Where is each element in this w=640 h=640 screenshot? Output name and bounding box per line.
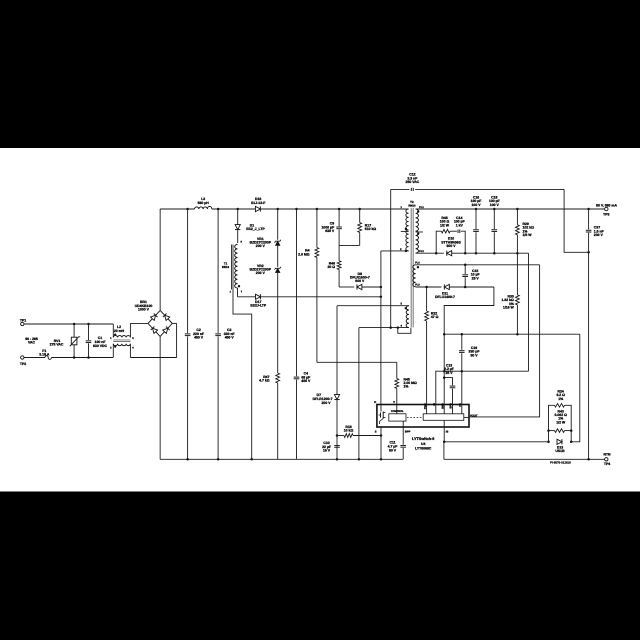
diode D17 bbox=[256, 294, 261, 299]
svg-text:V: V bbox=[393, 401, 395, 404]
svg-text:200 V: 200 V bbox=[256, 244, 266, 248]
svg-text:20 Ω: 20 Ω bbox=[327, 265, 335, 269]
svg-text:TP4: TP4 bbox=[604, 462, 610, 466]
IC internal control box bbox=[389, 414, 406, 421]
C12 right leg to output bbox=[564, 189, 589, 252]
IC internal dashed link bbox=[407, 416, 423, 418]
svg-text:100 V: 100 V bbox=[490, 203, 500, 207]
varistor RV1 bbox=[73, 324, 75, 337]
svg-text:80 V, 580 mA: 80 V, 580 mA bbox=[596, 203, 617, 207]
capacitor C12 wire left bbox=[391, 188, 410, 190]
svg-text:1%: 1% bbox=[558, 397, 563, 401]
IC control to BPP stub bbox=[402, 421, 404, 427]
svg-text:16 V: 16 V bbox=[323, 449, 331, 453]
diode D17 wire bbox=[238, 296, 256, 298]
wire FB pin bbox=[461, 371, 463, 404]
IC block to IS stub bbox=[443, 420, 445, 427]
svg-text:1/8 W: 1/8 W bbox=[523, 233, 533, 237]
wire L2 pin4 to bridge right bbox=[130, 357, 176, 359]
svg-text:510 kΩ: 510 kΩ bbox=[365, 227, 377, 231]
T2 core ground jog bbox=[398, 328, 411, 334]
svg-text:S: S bbox=[375, 431, 377, 434]
T2 primary upper winding bbox=[406, 209, 409, 251]
svg-text:CONTROL: CONTROL bbox=[391, 410, 404, 413]
diode D7 bbox=[336, 306, 338, 395]
svg-text:20 mH: 20 mH bbox=[114, 329, 125, 333]
svg-text:US1B: US1B bbox=[555, 449, 565, 453]
wire bridge plus to top rail bbox=[159, 209, 161, 310]
svg-text:450 V: 450 V bbox=[194, 336, 204, 340]
svg-text:10 kΩ: 10 kΩ bbox=[344, 429, 354, 433]
diode D8 bbox=[357, 284, 362, 289]
svg-text:275 VAC: 275 VAC bbox=[50, 343, 64, 347]
snubber R48 C14 bbox=[436, 231, 441, 253]
T2 secondary FL4-FL3 winding bbox=[413, 265, 416, 287]
svg-text:EE13: EE13 bbox=[222, 265, 229, 269]
wire FL4 to VOUT bbox=[469, 265, 540, 417]
bridge diode bottom-right bbox=[163, 328, 168, 333]
wire FL4 out bbox=[416, 264, 540, 266]
svg-text:25 V: 25 V bbox=[445, 371, 453, 375]
T2 primary upper tap bbox=[401, 230, 409, 232]
svg-text:1/2 W: 1/2 W bbox=[556, 420, 566, 424]
choke L2 bottom winding bbox=[113, 344, 130, 346]
inductor T1 winding bbox=[235, 245, 238, 289]
top rail primary bbox=[160, 208, 194, 210]
wire FL3 to D11 bbox=[416, 286, 442, 288]
wire TP1 to L2 bbox=[24, 323, 113, 325]
diode D8 wire bbox=[339, 286, 354, 288]
svg-text:S1J-13-F: S1J-13-F bbox=[251, 201, 265, 205]
wire R4 to R45 bbox=[317, 361, 397, 363]
T2 secondary FL1-FL2 winding bbox=[416, 209, 419, 253]
zener VR2 bbox=[276, 268, 280, 272]
T2 secondary tap bbox=[416, 231, 423, 233]
bridge diode top-right bbox=[165, 315, 170, 320]
svg-text:250 VAC: 250 VAC bbox=[406, 180, 420, 184]
svg-text:FL1: FL1 bbox=[419, 206, 424, 209]
svg-text:RM10: RM10 bbox=[408, 204, 416, 207]
T2 primary lower winding bbox=[406, 306, 409, 328]
svg-text:2.0 MΩ: 2.0 MΩ bbox=[298, 252, 310, 256]
svg-text:VAC: VAC bbox=[28, 341, 36, 345]
svg-text:100 V: 100 V bbox=[472, 203, 482, 207]
diode D11 bbox=[444, 284, 449, 289]
T2 pin5 wire bbox=[337, 305, 409, 307]
svg-text:DFLU1400-7: DFLU1400-7 bbox=[435, 295, 455, 299]
resistor R43 bbox=[547, 429, 550, 432]
svg-text:600 V: 600 V bbox=[447, 244, 457, 248]
T1 phase dot bbox=[238, 285, 240, 287]
capacitor C10 bbox=[334, 445, 340, 447]
diode D10 bbox=[447, 251, 452, 256]
capacitor C16 bbox=[475, 209, 477, 229]
choke L2 phase dots bbox=[114, 334, 116, 336]
wire drain node bbox=[380, 251, 382, 405]
bottom rail secondary RTN bbox=[444, 458, 605, 460]
svg-text:450 V: 450 V bbox=[301, 379, 311, 383]
svg-text:200 V: 200 V bbox=[256, 271, 266, 275]
resistor R22 bbox=[426, 287, 428, 311]
output rail bbox=[416, 208, 605, 210]
svg-text:450 V: 450 V bbox=[225, 336, 235, 340]
wire IS corner to RTN rail bbox=[443, 442, 445, 460]
svg-text:BPP: BPP bbox=[405, 431, 411, 434]
svg-text:ES2J-LTP: ES2J-LTP bbox=[250, 304, 266, 308]
svg-text:LYTSwitch-6: LYTSwitch-6 bbox=[412, 437, 434, 441]
svg-text:TP3: TP3 bbox=[603, 212, 609, 216]
svg-text:600 V: 600 V bbox=[355, 279, 365, 283]
IC U4 box bbox=[377, 405, 469, 428]
C12 left leg down to T2 pin4 bbox=[390, 189, 392, 327]
capacitor C9 bbox=[338, 209, 340, 226]
wire IS GND FB common bbox=[436, 371, 529, 404]
resistor R4 bbox=[316, 209, 318, 248]
inductor L3 bbox=[195, 206, 212, 209]
capacitor C1 bbox=[88, 324, 90, 340]
capacitor C37 bbox=[588, 209, 590, 230]
terminal TP4 RTN bbox=[605, 458, 608, 461]
svg-text:1%: 1% bbox=[404, 385, 409, 389]
IC internal block bbox=[423, 414, 464, 421]
resistor R45 bbox=[396, 362, 398, 378]
bridge diode top-left bbox=[151, 315, 156, 320]
capacitor C2 bbox=[187, 209, 189, 333]
wire FL2 to D10 bbox=[416, 252, 444, 254]
T2 pin2 wire to drain bbox=[381, 250, 409, 252]
capacitor C3 bbox=[217, 209, 219, 333]
resistor R17 bbox=[359, 209, 361, 223]
svg-text:630 V: 630 V bbox=[325, 229, 335, 233]
bridge diode bottom-left bbox=[153, 328, 158, 333]
svg-text:3.15 A: 3.15 A bbox=[39, 353, 50, 357]
choke L2 top winding bbox=[112, 324, 114, 337]
terminal TP3 bbox=[605, 207, 608, 210]
svg-text:560 µH: 560 µH bbox=[198, 201, 210, 205]
svg-text:1000 V: 1000 V bbox=[138, 308, 150, 312]
svg-text:50 V: 50 V bbox=[389, 448, 397, 452]
svg-text:1/2 W: 1/2 W bbox=[440, 223, 450, 227]
T1 core lead to bottom rail bbox=[233, 290, 252, 460]
T2 pin4 wire bbox=[359, 327, 409, 329]
svg-text:630 VDC: 630 VDC bbox=[93, 344, 107, 348]
capacitor C11 bbox=[402, 427, 404, 445]
choke L2 core bbox=[113, 339, 130, 341]
wire C9 R17 join bbox=[339, 244, 360, 246]
svg-text:TP1: TP1 bbox=[20, 318, 26, 322]
diode D1 bbox=[237, 209, 239, 225]
svg-text:47 Ω: 47 Ω bbox=[431, 315, 439, 319]
wire gnd node horizontal bbox=[444, 333, 580, 335]
svg-text:D: D bbox=[374, 401, 376, 404]
diode D13 bbox=[547, 441, 550, 444]
resistor R18 bbox=[336, 434, 339, 437]
wire D11 node to GND pin dogleg bbox=[444, 287, 494, 405]
wire L2 pin3 to bridge bbox=[130, 322, 148, 324]
svg-text:25 V: 25 V bbox=[472, 276, 480, 280]
bottom rail primary bbox=[160, 458, 403, 460]
wire F1 to L2 bbox=[51, 357, 113, 359]
resistor R46 bbox=[338, 245, 340, 260]
bridge rectifier BR1 bbox=[148, 310, 172, 336]
IC VOUT pin bbox=[464, 416, 469, 418]
letterbox bottom band bbox=[0, 492, 640, 640]
capacitor C19 bbox=[461, 334, 463, 350]
capacitor C12 bbox=[410, 188, 412, 191]
resistor R24 bbox=[549, 405, 555, 442]
wire output bus down bbox=[528, 253, 530, 371]
svg-text:ES2_J_LTP: ES2_J_LTP bbox=[246, 227, 265, 231]
svg-text:FL4: FL4 bbox=[415, 261, 420, 264]
resistor R47 bbox=[276, 373, 280, 383]
wire T2 pin4 down to bottom rail bbox=[358, 328, 360, 460]
svg-text:LYT6068C: LYT6068C bbox=[415, 446, 432, 450]
inductor T1 core bbox=[231, 245, 233, 290]
svg-text:200 V: 200 V bbox=[322, 401, 332, 405]
svg-text:4.7 kΩ: 4.7 kΩ bbox=[259, 379, 270, 383]
T2 core bbox=[410, 208, 412, 328]
fuse F1 bbox=[24, 357, 45, 359]
capacitor C15 bbox=[464, 265, 466, 274]
svg-text:IS: IS bbox=[446, 431, 449, 434]
capacitor C18 bbox=[493, 209, 495, 229]
resistor R29 bbox=[516, 209, 518, 225]
wire S pin to bottom rail bbox=[380, 427, 382, 459]
diode D16 bbox=[255, 206, 260, 211]
wire bridge minus to bottom rail bbox=[159, 336, 161, 459]
capacitor C4 bbox=[296, 209, 298, 376]
wire IS pin to sense bbox=[443, 427, 445, 442]
IC pin stubs top bbox=[426, 405, 428, 414]
zener VR1 bbox=[277, 209, 279, 240]
terminal TP2 bbox=[21, 356, 24, 359]
svg-text:PI-8576-012618: PI-8576-012618 bbox=[550, 460, 571, 464]
letterbox top band bbox=[0, 0, 640, 148]
IC internal mosfet bbox=[380, 405, 382, 412]
svg-text:200 V: 200 V bbox=[594, 233, 604, 237]
terminal TP1 bbox=[21, 322, 24, 325]
capacitor C13 bbox=[444, 378, 452, 386]
svg-text:50 V: 50 V bbox=[470, 354, 478, 358]
svg-text:1/16 W: 1/16 W bbox=[503, 306, 515, 310]
svg-text:U4: U4 bbox=[421, 442, 425, 446]
wire sense riser bbox=[571, 334, 580, 442]
svg-text:1 kV: 1 kV bbox=[456, 223, 464, 227]
svg-text:TP2: TP2 bbox=[20, 362, 26, 366]
svg-text:RTN: RTN bbox=[603, 452, 611, 456]
resistor R30 bbox=[516, 253, 518, 295]
svg-text:FL3: FL3 bbox=[415, 284, 420, 287]
